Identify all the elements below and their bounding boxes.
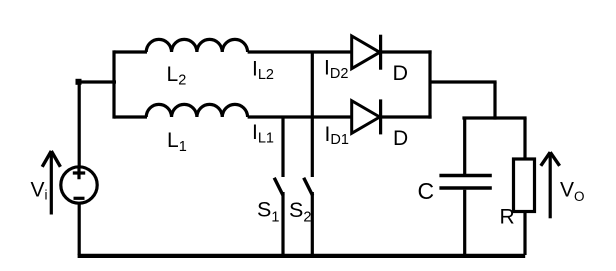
- svg-text:L2: L2: [167, 63, 187, 89]
- wire capacitor bottom lead: [463, 190, 466, 255]
- svg-text:ID1: ID1: [325, 123, 349, 148]
- switch S1 bottom lead: [281, 192, 284, 255]
- wire vertical splitter between L1 and L2 branches: [112, 50, 115, 118]
- diode D2 cathode bar: [379, 35, 382, 70]
- svg-text:C: C: [418, 178, 435, 204]
- capacitor C bottom plate: [439, 186, 491, 190]
- diode D1 triangle: [352, 101, 380, 134]
- switch S1 blade: [274, 178, 283, 196]
- capacitor C top plate: [439, 174, 491, 178]
- wire D1 cathode to diode join vertical: [381, 115, 432, 118]
- diode D1 cathode bar: [379, 99, 382, 134]
- wire D2 cathode to output node: [381, 50, 432, 53]
- svg-text:S1: S1: [257, 198, 279, 226]
- diode D2 triangle: [352, 36, 380, 69]
- wire input horizontal from source top to inductor split: [77, 80, 116, 83]
- svg-text:S2: S2: [289, 198, 311, 226]
- wire output tap vertical down to load top rail: [493, 82, 496, 120]
- arrow Vi direction: [50, 154, 53, 215]
- svg-text:L1: L1: [167, 129, 187, 155]
- inductor L1: [146, 104, 247, 117]
- wire L1 branch right lead to diode D1: [248, 115, 352, 118]
- svg-text:VO: VO: [560, 179, 585, 205]
- inductor L2: [146, 39, 247, 52]
- svg-text:D: D: [393, 61, 409, 85]
- wire output tap horizontal: [430, 80, 497, 83]
- wire capacitor top lead: [463, 118, 466, 174]
- wire L1 branch left lead: [114, 115, 147, 118]
- junction dot at input corner: [76, 79, 82, 85]
- resistor R body: [514, 159, 535, 212]
- svg-text:R: R: [500, 206, 515, 229]
- wire resistor top lead: [523, 118, 526, 160]
- wire load top rail: [462, 116, 526, 119]
- switch S2 blade: [304, 178, 313, 196]
- svg-text:IL2: IL2: [252, 57, 274, 83]
- switch S2 bottom lead: [311, 192, 314, 255]
- source minus sign: [74, 197, 85, 200]
- arrow Vo direction: [549, 155, 552, 218]
- wire resistor bottom lead: [523, 212, 526, 256]
- wire vertical joining D2 and D1 cathodes: [428, 50, 431, 118]
- switch S1 top lead: [281, 117, 284, 177]
- svg-text:IL1: IL1: [252, 121, 274, 146]
- switch S2 top lead from L2 node: [311, 52, 314, 177]
- svg-text:D: D: [393, 127, 408, 150]
- wire from source bottom to ground rail: [78, 204, 81, 256]
- wire vertical from input junction down to source top: [78, 80, 81, 166]
- ground rail bottom wire: [78, 254, 526, 258]
- source plus sign: [73, 167, 85, 179]
- wire L2 branch right lead to diode D2: [248, 50, 352, 53]
- svg-text:ID2: ID2: [324, 56, 348, 82]
- wire L2 branch left lead: [114, 50, 147, 53]
- source V1 circle: [61, 167, 97, 203]
- svg-text:Vi: Vi: [31, 179, 48, 203]
